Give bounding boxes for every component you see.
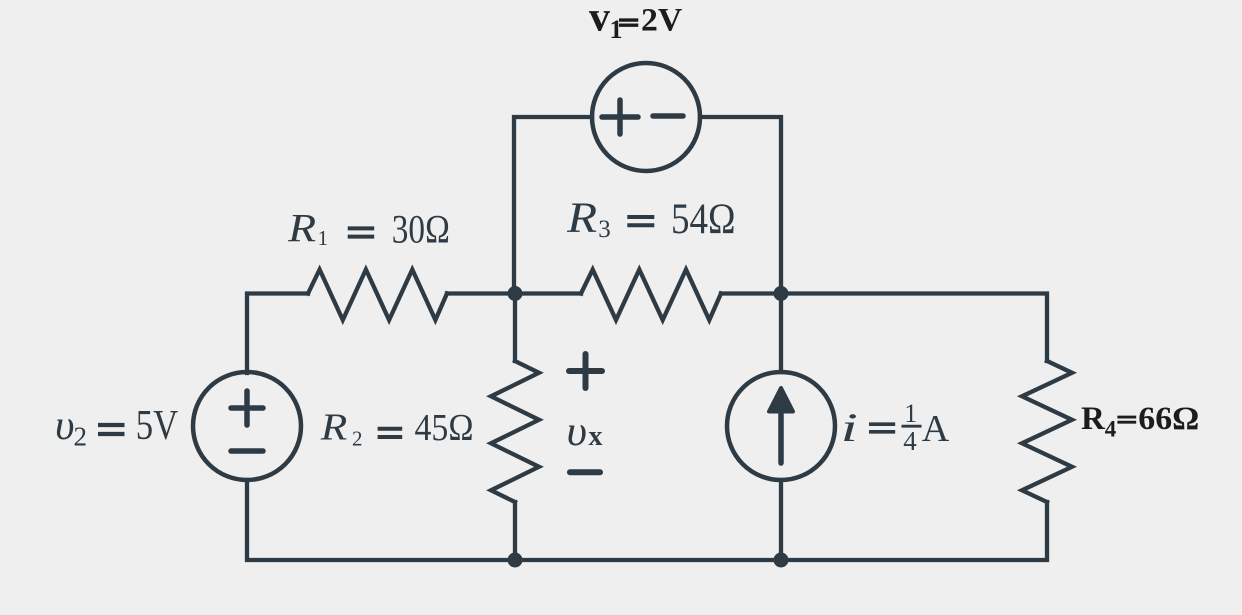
svg-text:R: R	[566, 195, 597, 242]
wire node A to R2 top	[513, 294, 517, 362]
svg-text:3: 3	[598, 216, 611, 243]
label v1=2V	[589, 0, 682, 44]
wire left branch: v2 top to R1 left	[247, 294, 308, 374]
wire node B to current source top	[779, 294, 783, 373]
svg-text:x: x	[589, 421, 603, 452]
svg-text:R: R	[1081, 401, 1106, 437]
node D (bottom under B)	[774, 553, 789, 568]
svg-text:i: i	[841, 406, 858, 450]
label vx minus sign	[570, 469, 600, 475]
label R1 = 30Ω	[287, 206, 450, 252]
svg-text:1: 1	[904, 399, 917, 428]
resistor R3	[581, 270, 721, 321]
svg-text:v: v	[589, 0, 610, 40]
label vx	[567, 409, 603, 455]
svg-text:2V: 2V	[641, 3, 682, 39]
wire top-left from v1 source to node A column	[514, 117, 592, 294]
wire R4 bottom and bottom rail to v2 bottom	[247, 480, 1047, 560]
wire R1 right to R3 left through node A	[447, 291, 581, 295]
wire node B to R4 top	[721, 294, 1047, 362]
svg-text:54Ω: 54Ω	[671, 196, 736, 243]
svg-text:A: A	[922, 408, 950, 450]
label v2 = 5V	[55, 403, 178, 452]
wire top-right from v1 source to node B column	[700, 117, 781, 294]
resistor R1	[308, 270, 447, 321]
svg-text:4: 4	[903, 426, 917, 456]
resistor R2	[491, 361, 539, 502]
current source I (i=1/4 A)	[727, 372, 835, 480]
resistor R4	[1022, 361, 1072, 502]
label R4=66Ω	[1081, 401, 1199, 442]
svg-text:30Ω: 30Ω	[392, 207, 450, 252]
wire R2 bottom to bottom rail	[513, 502, 517, 560]
svg-text:45Ω: 45Ω	[415, 407, 474, 449]
label R2 = 45Ω	[320, 406, 474, 450]
svg-text:4: 4	[1105, 417, 1117, 442]
svg-text:1: 1	[318, 226, 329, 250]
node B	[774, 286, 789, 301]
svg-text:υ: υ	[567, 409, 588, 455]
label i = 1/4 A	[841, 399, 950, 456]
wire current source bottom to bottom rail	[779, 480, 783, 560]
svg-text:2: 2	[352, 427, 363, 451]
svg-text:66Ω: 66Ω	[1138, 401, 1199, 437]
svg-text:υ: υ	[55, 403, 75, 449]
node A	[508, 286, 523, 301]
voltage source V2 (v2=5V)	[193, 372, 301, 480]
svg-text:5V: 5V	[136, 403, 179, 449]
voltage source V1 (v1=2V)	[592, 63, 700, 171]
label vx plus sign	[569, 354, 602, 388]
svg-text:2: 2	[74, 422, 88, 452]
label R3 = 54Ω	[566, 195, 735, 243]
node C (bottom under A)	[508, 553, 523, 568]
svg-text:R: R	[320, 406, 348, 448]
svg-text:R: R	[287, 206, 316, 251]
